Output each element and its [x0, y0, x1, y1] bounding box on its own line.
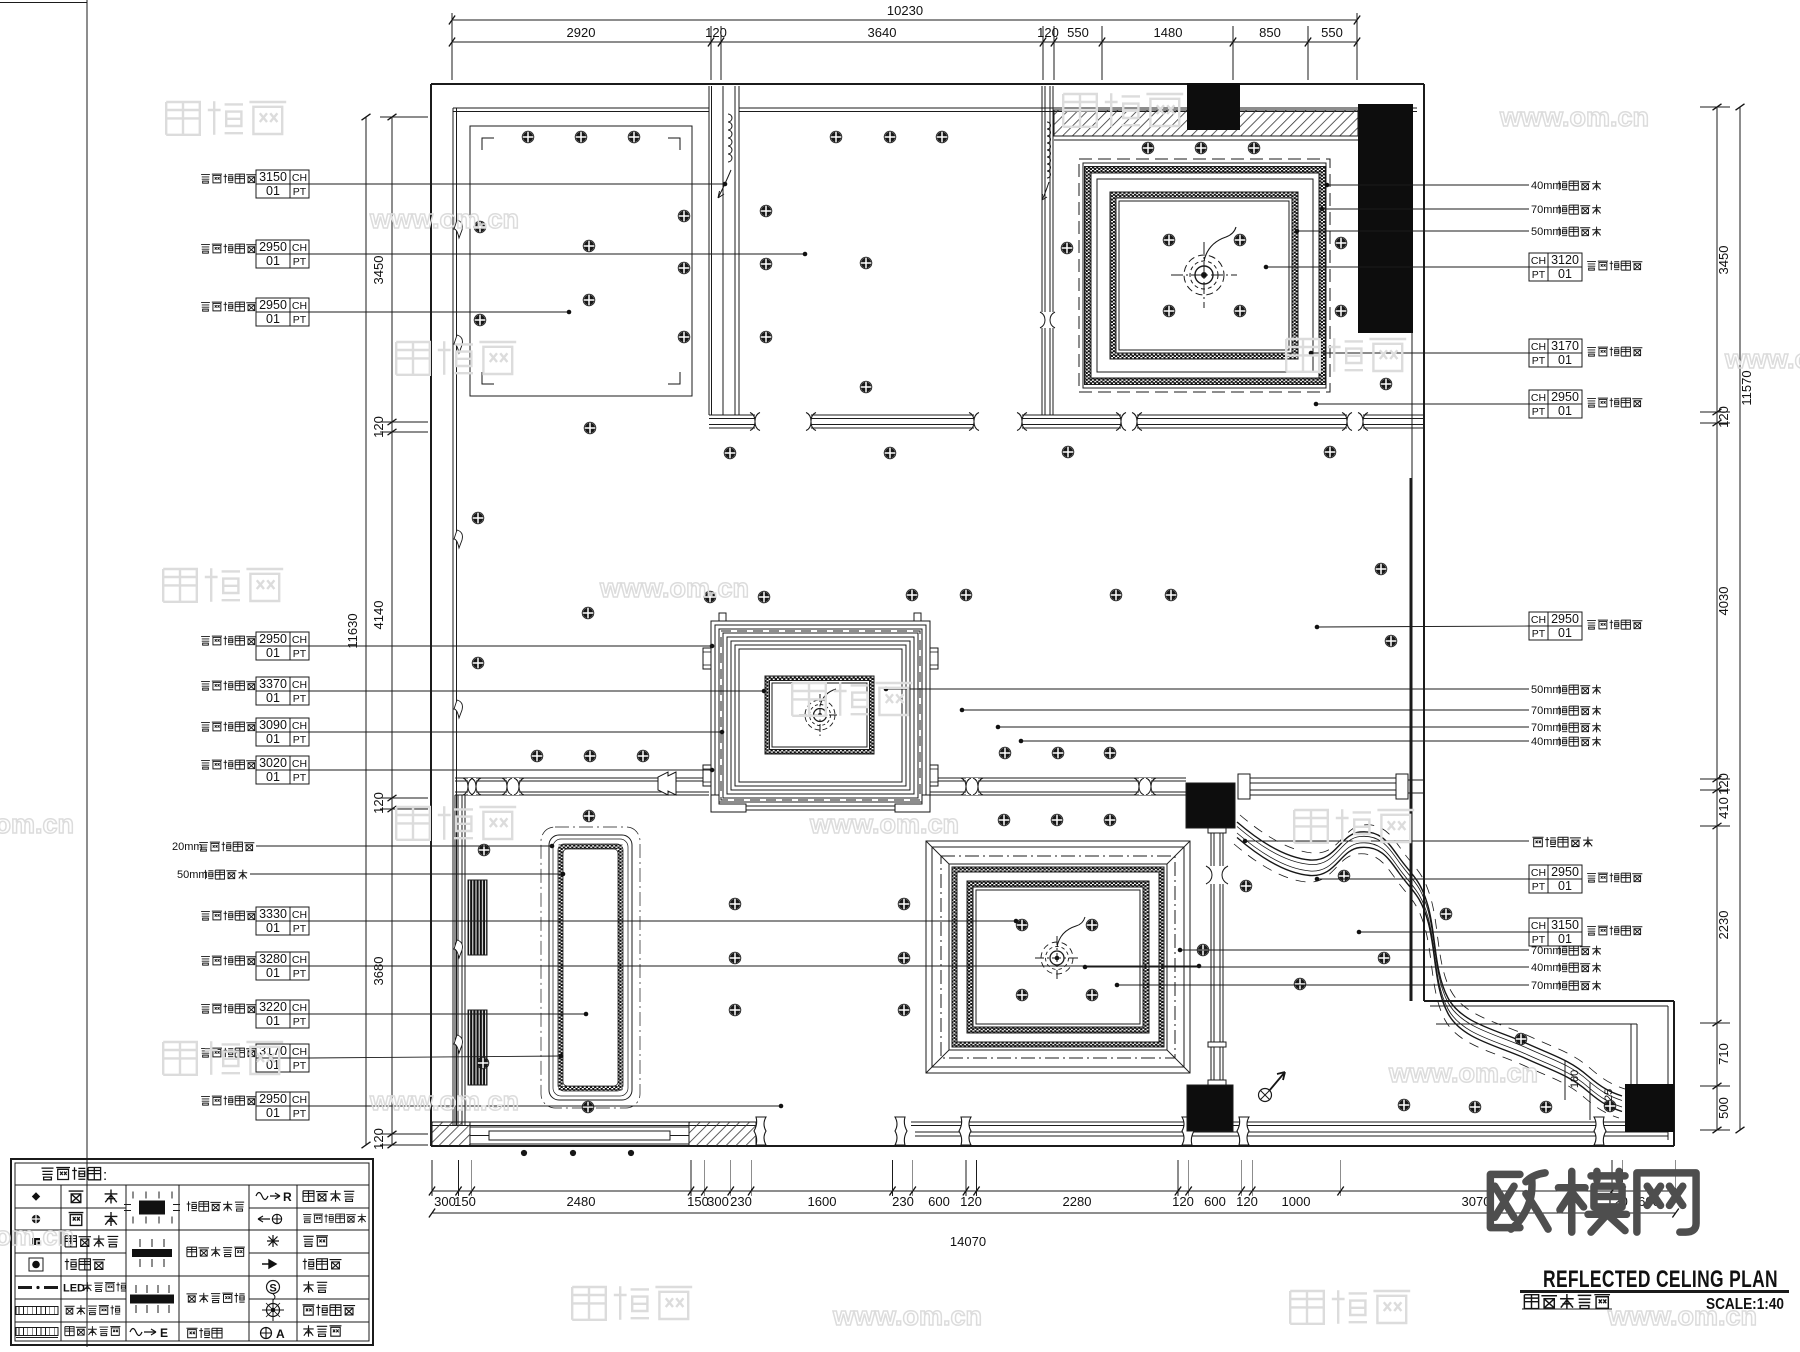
svg-text:www.om.cn: www.om.cn	[0, 809, 74, 839]
vertical rail break	[1206, 866, 1228, 884]
svg-text:10230: 10230	[887, 3, 923, 18]
right label low 70mm gypsum a	[1180, 949, 1529, 951]
svg-text:PT: PT	[1532, 628, 1546, 640]
svg-text:50mm: 50mm	[177, 869, 208, 881]
svg-text:PT: PT	[293, 256, 307, 268]
svg-text:PT: PT	[293, 734, 307, 746]
legend col4 labels	[187, 1201, 197, 1211]
legend col2 labels	[69, 1191, 84, 1203]
left callout 3370	[201, 682, 210, 691]
black column top	[1187, 83, 1240, 130]
right label mid 70mm gypsum a	[962, 709, 1529, 711]
svg-text:20mm: 20mm	[172, 841, 203, 853]
wall band y415-428	[709, 414, 1424, 416]
svg-text:CH: CH	[292, 1046, 307, 1058]
svg-text:3150: 3150	[259, 170, 287, 184]
svg-text:4140: 4140	[371, 601, 386, 630]
bottom coffer stipple band 1	[952, 867, 1164, 1047]
svg-text:1480: 1480	[1154, 25, 1183, 40]
svg-text:2950: 2950	[259, 240, 287, 254]
svg-text:01: 01	[266, 646, 280, 660]
inner wall vertical x455-465 lower	[454, 795, 456, 1125]
top dim extension lines	[451, 26, 453, 80]
spotlight row under window	[521, 1150, 527, 1156]
svg-text:150: 150	[454, 1194, 476, 1209]
left callout 3150	[201, 175, 210, 184]
middle coffer top tabs	[719, 613, 726, 621]
bottom coffer outer rects	[926, 841, 1190, 1073]
svg-text:PT: PT	[293, 1108, 307, 1120]
left dimension chain 3450/120/4140/120/3680/120	[391, 117, 393, 1145]
sheet frame top line	[0, 2, 87, 4]
svg-text:PT: PT	[293, 314, 307, 326]
right callout 2950a	[1529, 390, 1582, 418]
svg-text:3330: 3330	[259, 907, 287, 921]
svg-text:CH: CH	[292, 1094, 307, 1106]
svg-text:300: 300	[434, 1194, 456, 1209]
right dimension chain 3450/120/4030/120/410/2230/710/500	[1716, 107, 1718, 1130]
svg-text:120: 120	[371, 416, 386, 438]
svg-text:CH: CH	[1531, 255, 1546, 267]
rose gold wave band	[1237, 822, 1622, 1096]
outer wall top	[431, 83, 1424, 85]
svg-text:01: 01	[266, 1014, 280, 1028]
right callout 2950b	[1529, 612, 1582, 640]
svg-text:www.om.cn: www.om.cn	[0, 1221, 74, 1251]
svg-text:120: 120	[1037, 25, 1059, 40]
svg-text:PT: PT	[293, 186, 307, 198]
legend col5 symbols	[256, 1193, 280, 1200]
svg-text:01: 01	[1558, 404, 1572, 418]
svg-text:01: 01	[1558, 353, 1572, 367]
svg-text:2950: 2950	[1551, 390, 1579, 404]
bottom window assembly	[470, 1127, 689, 1144]
top dimension chain	[452, 41, 1357, 43]
left callout 3170	[201, 1049, 210, 1058]
bottom wall lines	[431, 1121, 756, 1123]
svg-text:3450: 3450	[1716, 246, 1731, 275]
left callout 2950b	[201, 303, 210, 312]
bottom wall jamb trumpets	[754, 1117, 766, 1145]
legend table frame	[11, 1159, 373, 1345]
svg-text:70mm: 70mm	[1531, 945, 1562, 957]
title chinese tianhua buzhitu	[1524, 1295, 1538, 1309]
room A ceiling recess rect	[470, 126, 692, 396]
wall shaft verticals x709-739	[708, 86, 710, 415]
air grille bars	[468, 880, 487, 955]
svg-text:www.om.cn: www.om.cn	[1499, 102, 1649, 132]
wall band break/pilaster symbols	[755, 413, 811, 431]
svg-text:120: 120	[1716, 406, 1731, 428]
svg-text:410: 410	[1716, 797, 1731, 819]
right callout 3170	[1529, 339, 1582, 367]
mid rail west y778-795	[455, 777, 709, 779]
top coffer chandelier	[1195, 266, 1213, 284]
left callout 2950d	[201, 1097, 210, 1106]
inner wall right thick poche	[1409, 478, 1412, 1001]
mid rail west fancy end	[658, 772, 676, 795]
outer wall right-bottom step	[1424, 1000, 1674, 1002]
svg-text:3280: 3280	[259, 952, 287, 966]
middle coffer corner feet	[711, 795, 746, 812]
top coffer stipple band outer	[1085, 167, 1326, 385]
svg-text:A: A	[276, 1327, 285, 1341]
bottom dim extension lines	[431, 1160, 433, 1196]
left dimension total 11630	[365, 117, 367, 1145]
svg-text:120: 120	[705, 25, 727, 40]
svg-text:120: 120	[960, 1194, 982, 1209]
bottom coffer chandelier	[1050, 951, 1064, 965]
svg-text:4030: 4030	[1716, 587, 1731, 616]
legend col1 symbols	[32, 1192, 40, 1200]
downlights	[522, 131, 534, 143]
svg-text:REFLECTED CELING PLAN: REFLECTED CELING PLAN	[1543, 1266, 1778, 1293]
legend col6 labels	[303, 1191, 314, 1202]
inner step lines bottom-right	[1430, 1005, 1668, 1007]
svg-text:11630: 11630	[345, 613, 360, 648]
svg-text:2950: 2950	[259, 632, 287, 646]
svg-text:01: 01	[266, 770, 280, 784]
svg-text:PT: PT	[293, 968, 307, 980]
left callout 3280	[201, 957, 210, 966]
svg-text:40mm: 40mm	[1531, 180, 1562, 192]
bottom coffer stipple band 2	[967, 881, 1149, 1033]
svg-text:CH: CH	[292, 242, 307, 254]
black column bottom	[1187, 1085, 1233, 1131]
middle coffer inner stipple frame	[765, 676, 874, 754]
svg-text:600: 600	[928, 1194, 950, 1209]
black column bottom-right	[1625, 1084, 1674, 1132]
svg-text:PT: PT	[1532, 269, 1546, 281]
svg-text:1600: 1600	[808, 1194, 837, 1209]
svg-text:40mm: 40mm	[1531, 736, 1562, 748]
inner wall right	[1411, 108, 1413, 478]
svg-text:120: 120	[1716, 773, 1731, 795]
svg-text:2950: 2950	[259, 298, 287, 312]
svg-text:PT: PT	[293, 1016, 307, 1028]
svg-text:2280: 2280	[1063, 1194, 1092, 1209]
svg-text::: :	[103, 1167, 107, 1184]
right dim extension lines	[1700, 106, 1730, 108]
svg-text:710: 710	[1716, 1043, 1731, 1065]
svg-text:CH: CH	[1531, 867, 1546, 879]
left callout 3020	[201, 761, 210, 770]
svg-text:850: 850	[1259, 25, 1281, 40]
svg-text:01: 01	[266, 966, 280, 980]
svg-text:3170: 3170	[1551, 339, 1579, 353]
svg-text:01: 01	[266, 921, 280, 935]
left callout 2950c	[201, 637, 210, 646]
svg-text:120: 120	[371, 1128, 386, 1150]
svg-text:2950: 2950	[1551, 612, 1579, 626]
svg-text:PT: PT	[293, 772, 307, 784]
mid rail east y776-797	[930, 777, 1186, 779]
right callout 3150	[1529, 918, 1582, 946]
right dimension total 11570	[1739, 107, 1741, 1130]
svg-text:S: S	[269, 1283, 276, 1295]
top dimension total 10230	[452, 19, 1357, 21]
title underline thin	[1522, 1308, 1612, 1310]
bottom coffer corner bevels	[926, 841, 949, 864]
wall shaft verticals x1042-1053	[1041, 86, 1043, 415]
svg-text:CH: CH	[1531, 392, 1546, 404]
svg-text:50mm: 50mm	[1531, 684, 1562, 696]
top coffer inner thin rect	[1097, 179, 1313, 372]
svg-text:40mm: 40mm	[1531, 962, 1562, 974]
svg-text:CH: CH	[292, 634, 307, 646]
right label rose gold trim	[1532, 837, 1543, 847]
svg-text:CH: CH	[292, 909, 307, 921]
outer wall bottom	[431, 1145, 1674, 1147]
svg-text:01: 01	[1558, 879, 1572, 893]
outer wall left	[430, 84, 432, 1146]
svg-text:01: 01	[1558, 932, 1572, 946]
svg-text:2480: 2480	[567, 1194, 596, 1209]
svg-text:www.om.cn: www.om.cn	[369, 1086, 519, 1116]
svg-text:CH: CH	[292, 172, 307, 184]
svg-text:CH: CH	[292, 679, 307, 691]
middle coffer pilasters	[703, 648, 711, 669]
svg-text:3370: 3370	[259, 677, 287, 691]
svg-text:PT: PT	[1532, 881, 1546, 893]
middle coffer chandelier	[814, 709, 827, 722]
left callout 3090	[201, 723, 210, 732]
inner wall top rooms B/C	[739, 107, 1417, 109]
svg-text:70mm: 70mm	[1531, 980, 1562, 992]
svg-text:70mm: 70mm	[1531, 705, 1562, 717]
svg-text:CH: CH	[292, 954, 307, 966]
vertical rail x1211-1223	[1210, 828, 1212, 1085]
bottom coffer dashdot ring	[941, 856, 1175, 1058]
right label low 40mm gypsum	[1085, 966, 1529, 968]
svg-text:01: 01	[266, 312, 280, 326]
svg-text:E: E	[160, 1326, 168, 1340]
shaft2 break symbol	[1040, 312, 1055, 328]
svg-text:550: 550	[1067, 25, 1089, 40]
svg-text:PT: PT	[293, 923, 307, 935]
svg-text:2950: 2950	[1551, 865, 1579, 879]
rounded feature dashdot outer	[541, 827, 640, 1108]
shaft2 curtain coil	[1047, 122, 1051, 178]
right label 50mm gypsum	[1297, 230, 1529, 232]
svg-text:01: 01	[266, 1106, 280, 1120]
thick rail east of black column	[1250, 778, 1396, 795]
svg-text:70mm: 70mm	[1531, 722, 1562, 734]
middle coffer nested rings	[711, 621, 930, 810]
svg-text:www.om.cn: www.om.cn	[809, 809, 959, 839]
svg-text:www.om.cn: www.om.cn	[369, 204, 519, 234]
vertical rail flange caps	[1208, 828, 1226, 833]
svg-text:230: 230	[892, 1194, 914, 1209]
sheet frame vertical line	[86, 0, 88, 1347]
svg-text:120: 120	[371, 792, 386, 814]
left callout 3330	[201, 912, 210, 921]
svg-text:3150: 3150	[1551, 918, 1579, 932]
svg-text:3220: 3220	[259, 1000, 287, 1014]
title underline thick	[1520, 1290, 1789, 1293]
svg-text:CH: CH	[1531, 341, 1546, 353]
svg-text:2920: 2920	[567, 25, 596, 40]
svg-text:3640: 3640	[868, 25, 897, 40]
top coffer dashed outer rings	[1079, 159, 1330, 392]
right label mid 50mm gypsum	[886, 688, 1529, 690]
svg-text:300: 300	[707, 1194, 729, 1209]
svg-text:3120: 3120	[1551, 253, 1579, 267]
legend grid	[60, 1185, 62, 1341]
north arrow compass	[1259, 1089, 1272, 1102]
svg-text:600: 600	[1204, 1194, 1226, 1209]
svg-text:CH: CH	[292, 1002, 307, 1014]
svg-text:11570: 11570	[1739, 370, 1754, 405]
left callout 2950a	[201, 245, 210, 254]
watermark logos light gray	[166, 102, 200, 135]
svg-text:70mm: 70mm	[1531, 204, 1562, 216]
svg-text:www.om.cn: www.om.cn	[1607, 1301, 1757, 1331]
svg-text:LED: LED	[63, 1283, 85, 1295]
right callout 2950c	[1529, 865, 1582, 893]
room A corner marks	[482, 138, 494, 150]
svg-text:PT: PT	[293, 693, 307, 705]
svg-text:14070: 14070	[950, 1234, 986, 1249]
black column middle	[1186, 783, 1235, 828]
legend header	[42, 1168, 54, 1180]
svg-text:PT: PT	[293, 1060, 307, 1072]
top coffer inner stipple band	[1110, 192, 1298, 359]
curtain coil symbol	[728, 114, 732, 162]
svg-text:150: 150	[687, 1194, 709, 1209]
svg-text:01: 01	[1558, 267, 1572, 281]
bottom dimension chain	[432, 1190, 1676, 1192]
svg-text:www.om.cn: www.om.cn	[599, 573, 749, 603]
svg-text:120: 120	[1172, 1194, 1194, 1209]
left dim extension lines	[380, 116, 428, 118]
svg-text:2950: 2950	[259, 1092, 287, 1106]
left wall pilaster fins	[454, 220, 462, 238]
big logo OMW dark gray	[1490, 1173, 1548, 1229]
svg-text:180: 180	[1569, 1070, 1581, 1088]
svg-text:230: 230	[730, 1194, 752, 1209]
right label 70mm gypsum	[1322, 208, 1529, 210]
svg-text:3090: 3090	[259, 718, 287, 732]
right label 40mm gypsum	[1327, 184, 1529, 186]
legend col3 symbols	[139, 1201, 165, 1215]
svg-text:PT: PT	[293, 648, 307, 660]
svg-text:3680: 3680	[371, 957, 386, 986]
svg-text:PT: PT	[1532, 355, 1546, 367]
svg-text:500: 500	[1716, 1097, 1731, 1119]
svg-text:www.om.cn: www.om.cn	[832, 1301, 982, 1331]
svg-text:120: 120	[1236, 1194, 1258, 1209]
svg-text:CH: CH	[1531, 920, 1546, 932]
svg-text:01: 01	[266, 254, 280, 268]
svg-text:3020: 3020	[259, 756, 287, 770]
black column right tall	[1358, 104, 1413, 333]
svg-text:2230: 2230	[1716, 911, 1731, 940]
svg-text:CH: CH	[292, 300, 307, 312]
svg-text:www.om.cn: www.om.cn	[1724, 344, 1800, 374]
svg-text:www.om.cn: www.om.cn	[1388, 1058, 1538, 1088]
right label mid 40mm gypsum	[1021, 740, 1529, 742]
bottom dimension total 14070	[432, 1212, 1676, 1214]
bottom wall hatch segments	[432, 1122, 470, 1146]
outer wall right upper	[1423, 84, 1425, 1001]
svg-text:3450: 3450	[371, 256, 386, 285]
svg-text:01: 01	[266, 691, 280, 705]
svg-text:01: 01	[266, 184, 280, 198]
right label mid 70mm gypsum b	[998, 726, 1529, 728]
right label low 70mm gypsum b	[1117, 984, 1529, 986]
svg-text:PT: PT	[1532, 406, 1546, 418]
hatched wall band top-right	[1054, 139, 1358, 141]
svg-text:CH: CH	[1531, 614, 1546, 626]
svg-text:50mm: 50mm	[1531, 226, 1562, 238]
svg-text:01: 01	[266, 732, 280, 746]
svg-text:550: 550	[1321, 25, 1343, 40]
inner wall top room A	[453, 107, 709, 109]
svg-text:CH: CH	[292, 758, 307, 770]
left callout 3220	[201, 1005, 210, 1014]
rounded feature stipple band	[558, 844, 623, 1091]
svg-text:1000: 1000	[1282, 1194, 1311, 1209]
inner wall left double line	[452, 108, 454, 1125]
svg-text:01: 01	[1558, 626, 1572, 640]
svg-text:3070: 3070	[1462, 1194, 1491, 1209]
svg-text:R: R	[283, 1190, 292, 1204]
svg-text:CH: CH	[292, 720, 307, 732]
rounded feature double rect	[549, 835, 632, 1100]
right callout 3120	[1529, 253, 1582, 281]
